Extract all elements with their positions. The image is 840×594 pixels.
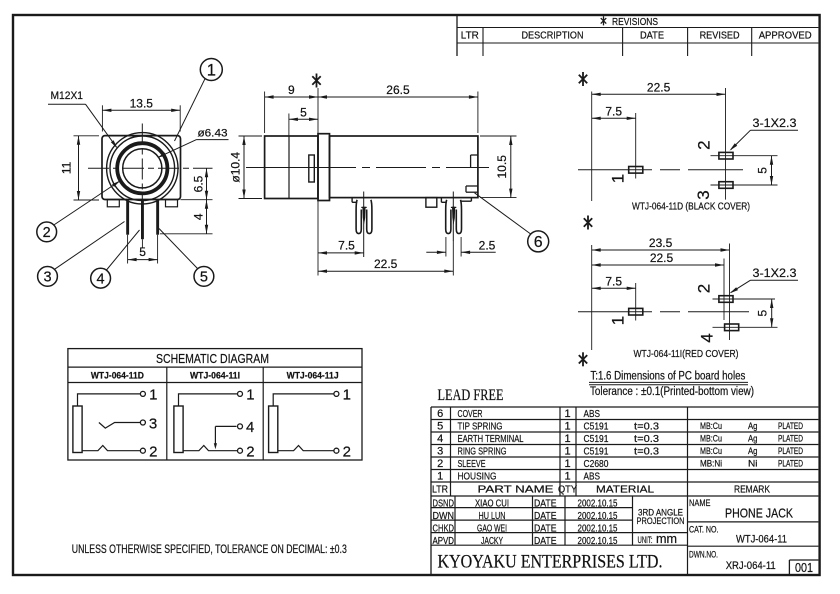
balloon 3 leader bbox=[55, 222, 125, 270]
balloon 5 bbox=[194, 267, 214, 287]
svg-text:10.5: 10.5 bbox=[495, 155, 509, 179]
svg-text:3: 3 bbox=[43, 270, 51, 286]
svg-text:4: 4 bbox=[698, 333, 717, 342]
dimension 5 (side) bbox=[289, 118, 318, 120]
side view main body bbox=[330, 136, 478, 198]
svg-text:TIP SPRING: TIP SPRING bbox=[458, 421, 503, 433]
title block grid bbox=[431, 507, 633, 509]
balloon 4 leader bbox=[107, 230, 140, 270]
svg-text:COVER: COVER bbox=[458, 408, 483, 420]
claw 2 center pin line bbox=[452, 192, 454, 241]
pcb1 left reference line bbox=[591, 92, 593, 202]
dimension 4 bbox=[206, 200, 208, 234]
svg-text:LTR: LTR bbox=[461, 29, 479, 41]
dimension ø10.4 bbox=[243, 136, 245, 199]
revisions header asterisk bbox=[603, 16, 605, 25]
side view claw at x=363.7 bbox=[356, 200, 361, 234]
svg-text:MATERIAL: MATERIAL bbox=[596, 484, 654, 496]
svg-text:CHKD: CHKD bbox=[433, 523, 455, 534]
svg-text:C5191: C5191 bbox=[584, 433, 609, 445]
svg-text:PHONE JACK: PHONE JACK bbox=[725, 506, 793, 521]
pcb2 pad 1 bbox=[629, 308, 643, 315]
pcb2 pad row lines bbox=[713, 298, 776, 300]
svg-text:3: 3 bbox=[149, 415, 157, 432]
schematic 11I contact 4 bbox=[215, 425, 236, 427]
front view jack hole circle bbox=[123, 149, 162, 188]
svg-text:7.5: 7.5 bbox=[605, 104, 622, 118]
BOM table grid bbox=[431, 406, 818, 408]
dimension 2.5 extension lines bbox=[445, 237, 447, 257]
dimension 6.5 bbox=[206, 168, 208, 199]
svg-text:DATE: DATE bbox=[534, 511, 557, 522]
svg-text:5: 5 bbox=[300, 105, 307, 119]
svg-text:2002.10.15: 2002.10.15 bbox=[578, 511, 618, 522]
schematic 11I sleeve bbox=[174, 406, 183, 453]
front view legs (pins) bbox=[126, 200, 129, 235]
svg-text:2: 2 bbox=[695, 284, 714, 293]
side view flange bbox=[318, 134, 330, 201]
pcb1 right reference line bbox=[725, 88, 727, 200]
svg-text:C2680: C2680 bbox=[584, 458, 609, 470]
svg-text:T:1.6 Dimensions of PC board h: T:1.6 Dimensions of PC board holes bbox=[590, 371, 745, 383]
front view right foot bbox=[166, 200, 178, 207]
svg-text:22.5: 22.5 bbox=[650, 251, 674, 265]
dimension 10.5 bbox=[510, 136, 512, 198]
svg-text:MB:Cu: MB:Cu bbox=[700, 421, 722, 431]
svg-text:5: 5 bbox=[139, 245, 146, 259]
dimension 5 (front view) bbox=[128, 259, 158, 261]
dimension 22.5 (side) bbox=[452, 240, 454, 276]
svg-text:UNIT:: UNIT: bbox=[638, 535, 653, 546]
svg-text:ABS: ABS bbox=[584, 471, 601, 483]
front view thread outer circle bbox=[107, 133, 178, 204]
svg-text:7.5: 7.5 bbox=[338, 238, 355, 252]
svg-text:REVISED: REVISED bbox=[700, 29, 740, 41]
dimension 5 extension (side) bbox=[288, 114, 290, 137]
schematic 11D sleeve bbox=[73, 406, 82, 453]
svg-text:1: 1 bbox=[343, 387, 351, 404]
balloon 2 leader bbox=[54, 182, 119, 226]
svg-text:PART NAME: PART NAME bbox=[478, 484, 554, 496]
svg-text:2002.10.15: 2002.10.15 bbox=[578, 536, 618, 547]
svg-text:5: 5 bbox=[756, 309, 770, 316]
dimension 9 extension bbox=[264, 92, 266, 134]
svg-text:C5191: C5191 bbox=[584, 421, 609, 433]
svg-text:2: 2 bbox=[246, 444, 254, 461]
pcb2 dimension 22.5 bbox=[592, 264, 724, 266]
pcb1 dimension 7.5 bbox=[592, 117, 636, 119]
svg-text:QTY: QTY bbox=[558, 484, 577, 496]
pcb2 pad 4 bbox=[725, 324, 739, 331]
svg-text:2002.10.15: 2002.10.15 bbox=[578, 498, 618, 509]
svg-text:6: 6 bbox=[534, 234, 543, 251]
pcb2 23.5 reference line bbox=[729, 244, 731, 341]
svg-text:DATE: DATE bbox=[534, 523, 557, 534]
svg-text:APVD: APVD bbox=[433, 536, 455, 547]
schematic 11J tip line to 1 bbox=[273, 394, 334, 406]
dimension 11 bbox=[74, 135, 100, 137]
schematic diagram box bbox=[68, 349, 362, 460]
schematic 11D tip line to 1 bbox=[78, 394, 141, 406]
svg-text:PLATED: PLATED bbox=[778, 446, 803, 456]
svg-text:mm: mm bbox=[656, 532, 677, 546]
svg-text:11: 11 bbox=[60, 161, 74, 174]
pcb1 asterisk top bbox=[582, 72, 584, 86]
svg-text:1: 1 bbox=[564, 471, 570, 483]
ø6.43 leader bbox=[197, 139, 229, 141]
side view middle tab bbox=[426, 198, 437, 208]
svg-text:7.5: 7.5 bbox=[605, 274, 622, 288]
svg-text:XRJ-064-11: XRJ-064-11 bbox=[726, 560, 776, 572]
svg-text:CAT. NO.: CAT. NO. bbox=[689, 524, 719, 535]
svg-text:2002.10.15: 2002.10.15 bbox=[578, 523, 618, 534]
balloon 1 leader bbox=[175, 78, 206, 141]
dimension 2.5 (outside arrows) bbox=[426, 251, 446, 253]
svg-text:3: 3 bbox=[437, 446, 443, 458]
svg-text:DATE: DATE bbox=[640, 29, 664, 41]
svg-text:4: 4 bbox=[437, 433, 443, 445]
side view claw2 left hook bbox=[440, 198, 442, 203]
svg-text:t=0.3: t=0.3 bbox=[634, 446, 659, 458]
svg-text:APPROVED: APPROVED bbox=[759, 29, 812, 41]
svg-text:001: 001 bbox=[795, 560, 813, 575]
svg-text:EARTH TERMINAL: EARTH TERMINAL bbox=[458, 433, 524, 445]
pcb2 pad 2 bbox=[719, 296, 733, 303]
schematic 11D ring contact to 3 bbox=[99, 423, 140, 429]
dimension 6.5 extension bbox=[181, 199, 213, 201]
svg-text:WTJ-064-11: WTJ-064-11 bbox=[736, 533, 787, 545]
svg-text:t=0.3: t=0.3 bbox=[634, 421, 659, 433]
front view tip-spring ring (thick) bbox=[117, 143, 167, 193]
svg-text:Tolerance : ±0.1(Printed-botto: Tolerance : ±0.1(Printed-bottom view) bbox=[590, 386, 754, 398]
svg-text:DWN.NO.: DWN.NO. bbox=[689, 550, 718, 561]
side view lower right notch bbox=[465, 186, 467, 192]
svg-text:2: 2 bbox=[43, 225, 51, 241]
balloon 3 bbox=[38, 267, 58, 287]
pcb2 pad1 vertical line bbox=[635, 283, 637, 321]
pcb2 asterisk bottom bbox=[582, 352, 584, 366]
svg-text:2: 2 bbox=[343, 444, 351, 461]
svg-text:SLEEVE: SLEEVE bbox=[458, 458, 486, 470]
svg-text:4: 4 bbox=[246, 419, 254, 436]
balloon 4 bbox=[91, 268, 111, 288]
svg-text:1: 1 bbox=[149, 387, 157, 404]
001 box bbox=[788, 560, 790, 575]
front view leg extension lines bbox=[127, 235, 129, 264]
svg-text:1: 1 bbox=[437, 471, 443, 483]
side view claw2 right ledge bbox=[461, 200, 472, 202]
dimension 13.5 bbox=[102, 109, 180, 111]
balloon 6 leader bbox=[475, 193, 531, 234]
svg-text:JACKY: JACKY bbox=[481, 536, 503, 547]
dimension 13.5 extension lines bbox=[101, 105, 103, 131]
svg-text:HOUSING: HOUSING bbox=[458, 471, 497, 483]
svg-text:1: 1 bbox=[564, 408, 570, 420]
front view left foot bbox=[107, 200, 119, 207]
svg-text:REVISIONS: REVISIONS bbox=[612, 16, 658, 28]
svg-text:HU LUN: HU LUN bbox=[479, 511, 506, 522]
svg-text:1: 1 bbox=[564, 458, 570, 470]
svg-text:1: 1 bbox=[564, 421, 570, 433]
side view claw1 left hook bbox=[351, 198, 353, 203]
pcb1 pad row lines bbox=[711, 155, 778, 157]
schematic 11J sleeve contact to 2 bbox=[278, 446, 334, 451]
svg-text:23.5: 23.5 bbox=[649, 236, 673, 250]
schematic 11J sleeve bbox=[269, 406, 278, 453]
dimension ø10.4 extensions bbox=[239, 135, 263, 137]
svg-text:WTJ-064-11J: WTJ-064-11J bbox=[287, 371, 339, 382]
svg-text:4: 4 bbox=[97, 271, 105, 287]
svg-text:WTJ-064-11I(RED COVER): WTJ-064-11I(RED COVER) bbox=[634, 348, 739, 360]
pcb1 pad 2 bbox=[719, 152, 733, 159]
svg-text:GAO WEI: GAO WEI bbox=[477, 523, 507, 534]
svg-text:MB:Ni: MB:Ni bbox=[700, 459, 722, 469]
revisions table bbox=[456, 15, 458, 56]
side view claw at x=453.3 bbox=[446, 200, 451, 234]
pcb1 pad 1 bbox=[629, 167, 643, 174]
pcb1 centerline bbox=[578, 169, 743, 171]
svg-text:1: 1 bbox=[564, 446, 570, 458]
pcb2 left reference line bbox=[591, 245, 593, 350]
side view upper right step bbox=[470, 155, 472, 168]
svg-text:UNLESS OTHERWISE SPECIFIED, TO: UNLESS OTHERWISE SPECIFIED, TOLERANCE ON… bbox=[72, 542, 347, 556]
balloon 2 bbox=[37, 222, 57, 242]
dimension 26.5 bbox=[318, 96, 478, 98]
svg-text:SCHEMATIC DIAGRAM: SCHEMATIC DIAGRAM bbox=[156, 351, 269, 366]
svg-text:6: 6 bbox=[437, 408, 443, 420]
svg-text:22.5: 22.5 bbox=[374, 257, 398, 271]
svg-text:3-1X2.3: 3-1X2.3 bbox=[753, 116, 797, 130]
svg-text:LEAD FREE: LEAD FREE bbox=[438, 387, 504, 404]
svg-text:DWN: DWN bbox=[433, 511, 455, 522]
svg-text:26.5: 26.5 bbox=[386, 83, 410, 97]
svg-text:2: 2 bbox=[149, 444, 157, 461]
svg-text:C5191: C5191 bbox=[584, 446, 609, 458]
svg-text:WTJ-064-11D (BLACK COVER): WTJ-064-11D (BLACK COVER) bbox=[632, 201, 750, 213]
schematic 11D sleeve contact to 2 bbox=[82, 446, 140, 451]
pcb2 22.5 reference line bbox=[723, 259, 725, 321]
svg-text:XIAO CUI: XIAO CUI bbox=[475, 498, 509, 509]
dimension 9 bbox=[265, 96, 318, 98]
svg-text:Ni: Ni bbox=[748, 459, 758, 469]
svg-text:6.5: 6.5 bbox=[192, 175, 206, 192]
side view barrel bbox=[265, 136, 318, 199]
svg-text:5: 5 bbox=[200, 270, 208, 286]
pcb1 dimension 5 bbox=[771, 156, 773, 185]
svg-text:MB:Cu: MB:Cu bbox=[700, 446, 722, 456]
svg-text:WTJ-064-11D: WTJ-064-11D bbox=[91, 371, 144, 382]
flange-left long extension line bbox=[317, 88, 319, 276]
pcb1 dimension 22.5 bbox=[592, 93, 726, 95]
svg-text:ABS: ABS bbox=[584, 408, 601, 420]
svg-text:1: 1 bbox=[608, 174, 627, 183]
front view housing body bbox=[102, 136, 181, 200]
svg-text:PROJECTION: PROJECTION bbox=[637, 516, 685, 527]
pcb2 dimension 7.5 bbox=[592, 287, 636, 289]
schematic 11I sleeve contact to 2 bbox=[183, 446, 237, 451]
svg-text:13.5: 13.5 bbox=[130, 96, 154, 110]
svg-text:PLATED: PLATED bbox=[778, 421, 803, 431]
svg-text:Ag: Ag bbox=[748, 446, 758, 456]
balloon 1 bbox=[200, 59, 222, 81]
pcb1 pad1 vertical line bbox=[635, 113, 637, 179]
svg-text:22.5: 22.5 bbox=[647, 80, 671, 94]
side view centerline bbox=[246, 167, 489, 169]
svg-text:LTR: LTR bbox=[432, 484, 448, 496]
svg-text:DATE: DATE bbox=[534, 536, 557, 547]
svg-text:ø6.43: ø6.43 bbox=[198, 128, 228, 140]
pcb2 dimension 5 bbox=[771, 299, 773, 327]
svg-text:1: 1 bbox=[564, 433, 570, 445]
svg-text:ø10.4: ø10.4 bbox=[229, 152, 243, 183]
dimension 7.5 (side) bbox=[318, 252, 364, 254]
dimension 26.5 extension right bbox=[477, 92, 479, 134]
svg-text:MB:Cu: MB:Cu bbox=[700, 434, 722, 444]
svg-text:WTJ-064-11I: WTJ-064-11I bbox=[190, 371, 240, 382]
svg-text:5: 5 bbox=[756, 167, 770, 174]
svg-text:2: 2 bbox=[695, 140, 714, 149]
svg-text:3: 3 bbox=[694, 190, 713, 199]
balloon 6 bbox=[528, 231, 549, 252]
svg-text:DSND: DSND bbox=[433, 498, 455, 509]
claw 1 center pin line bbox=[363, 192, 365, 258]
svg-text:1: 1 bbox=[246, 387, 254, 404]
pcb2 centerline bbox=[578, 311, 749, 313]
pcb2 dimension 23.5 bbox=[592, 249, 730, 251]
svg-text:1: 1 bbox=[207, 61, 216, 79]
svg-text:Ag: Ag bbox=[748, 434, 758, 444]
dimension 10.5 extensions bbox=[480, 135, 517, 137]
svg-text:5: 5 bbox=[437, 421, 443, 433]
dimension 4 extension bbox=[160, 233, 213, 235]
svg-text:PLATED: PLATED bbox=[778, 434, 803, 444]
front view vertical centerline bbox=[141, 124, 143, 214]
pcb1 asterisk bottom bbox=[587, 216, 589, 230]
svg-text:DESCRIPTION: DESCRIPTION bbox=[522, 29, 584, 41]
pcb1 pad 3 bbox=[719, 182, 733, 189]
svg-text:t=0.3: t=0.3 bbox=[634, 433, 659, 445]
M12X1 leader bbox=[48, 103, 86, 105]
svg-text:RING SPRING: RING SPRING bbox=[458, 446, 507, 458]
svg-text:2.5: 2.5 bbox=[479, 238, 496, 252]
svg-text:PLATED: PLATED bbox=[778, 459, 803, 469]
svg-text:9: 9 bbox=[288, 83, 295, 97]
svg-text:DATE: DATE bbox=[534, 498, 557, 509]
svg-text:NAME: NAME bbox=[689, 498, 711, 509]
svg-text:Ag: Ag bbox=[748, 421, 758, 431]
front view barrel circle bbox=[110, 136, 175, 201]
front view horizontal centerline bbox=[88, 167, 213, 169]
side view barrel slot bbox=[309, 155, 315, 182]
side view asterisk bbox=[316, 74, 318, 88]
svg-text:4: 4 bbox=[192, 213, 206, 220]
svg-text:M12X1: M12X1 bbox=[51, 90, 84, 102]
schematic 11I tip line to 1 bbox=[179, 394, 238, 406]
svg-text:1: 1 bbox=[608, 316, 627, 325]
svg-text:2: 2 bbox=[437, 458, 443, 470]
balloon 5 leader bbox=[159, 229, 198, 269]
svg-text:KYOYAKU ENTERPRISES LTD.: KYOYAKU ENTERPRISES LTD. bbox=[438, 552, 663, 573]
side view barrel thread boundary bbox=[288, 136, 290, 199]
svg-text:REMARK: REMARK bbox=[734, 484, 770, 496]
svg-text:3-1X2.3: 3-1X2.3 bbox=[753, 266, 797, 280]
